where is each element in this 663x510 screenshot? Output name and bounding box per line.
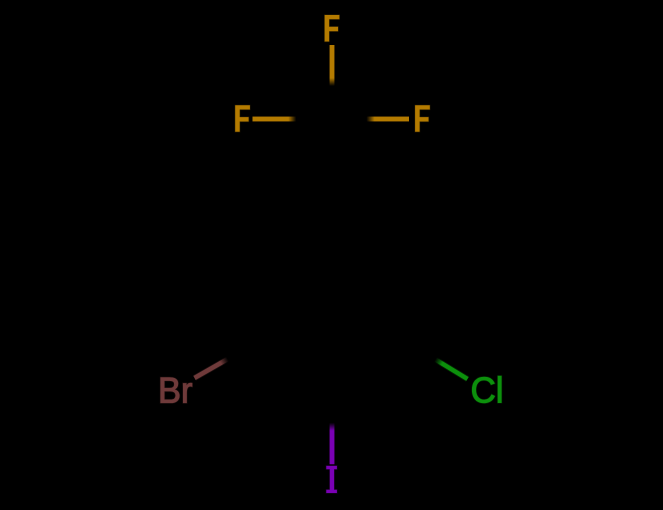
atom label F (right)	[415, 105, 430, 132]
benzene ring C1-C6 (black aromatic bonds, invisible on black)	[254, 209, 410, 389]
bond C7-F left	[253, 116, 333, 122]
bond C5-Cl	[410, 344, 468, 379]
bond C4-I	[329, 389, 335, 464]
atom label F (left)	[235, 105, 250, 132]
atom label F (top)	[325, 15, 340, 42]
bond C7-F right	[332, 116, 409, 122]
atom label Br	[161, 378, 192, 403]
atom label Cl	[472, 376, 501, 403]
bond C7-F top	[329, 45, 335, 119]
atom label I (serif capital I)	[326, 466, 337, 493]
bond C3-Br	[195, 344, 255, 378]
bond C7(CF3)-C1 ring	[329, 119, 335, 209]
